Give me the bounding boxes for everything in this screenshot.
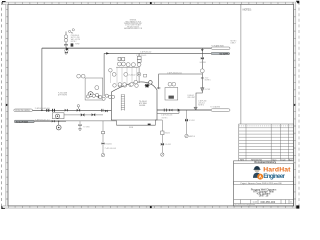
small relief valves on vent stack xyxy=(69,29,75,34)
pipe B riser corner arrow xyxy=(106,52,109,54)
flange pair at tank suction nozzle xyxy=(101,109,103,112)
small tag box above gauge xyxy=(144,74,147,77)
instrument row 2 bubbles xyxy=(112,73,135,77)
level gauge bubble right of cross xyxy=(149,81,153,85)
junction dot suction/header drop xyxy=(41,110,43,112)
svg-text:000-PID-003: 000-PID-003 xyxy=(261,200,276,204)
funnel drain x80 xyxy=(78,121,89,131)
instrument bubble x110 xyxy=(109,69,113,84)
logo: orange badge circle xyxy=(257,174,263,180)
pipe B drop wire x104 xyxy=(103,53,105,96)
svg-text:PSV-430-01: PSV-430-01 xyxy=(71,35,80,37)
general note block top center xyxy=(124,19,143,30)
label above top connector xyxy=(211,45,224,48)
pipe riser x202 from header xyxy=(196,48,202,110)
off-page connector outlet xyxy=(211,109,230,112)
dike wall profile xyxy=(34,120,162,125)
plot info text xyxy=(235,203,256,206)
svg-text:NOTE 5: NOTE 5 xyxy=(205,79,211,81)
svg-text:HV-4301: HV-4301 xyxy=(200,62,206,64)
logo: HardHat text xyxy=(263,166,291,173)
svg-text:NOTE 2: NOTE 2 xyxy=(71,41,77,43)
off-page connector return (hatched) xyxy=(15,120,35,123)
svg-text:NOTE 3: NOTE 3 xyxy=(231,41,237,43)
sump block in dike xyxy=(148,124,151,126)
label on fill line xyxy=(167,71,182,74)
logo: hardhat person icon xyxy=(253,166,261,178)
title block outline xyxy=(234,161,294,206)
spec break on riser xyxy=(201,77,211,81)
label above outlet connector xyxy=(210,106,221,109)
left border band xyxy=(6,4,8,206)
instrument bubbles above pump house xyxy=(77,74,85,78)
transfer pump below xyxy=(56,121,61,130)
title text: UNIT 16 xyxy=(259,194,269,198)
pump house note text xyxy=(58,91,67,96)
instrument bubble on riser xyxy=(200,69,204,73)
centering mark left xyxy=(6,104,8,106)
svg-text:TO FLARE HDR: TO FLARE HDR xyxy=(211,45,224,48)
title text: 430 System xyxy=(257,192,271,196)
flange at tank inlet xyxy=(157,88,160,89)
off-page connector (filled capsule) second xyxy=(211,52,230,55)
tank name text xyxy=(139,101,148,107)
svg-text:DV-4302: DV-4302 xyxy=(165,144,171,146)
suction line from connector y110 xyxy=(33,109,112,111)
dark gauge hatch cross on dome xyxy=(145,84,150,88)
gate valve on suction line xyxy=(65,109,68,112)
sample drop x186.5 xyxy=(185,110,195,138)
tee junction mark on outlet xyxy=(178,109,181,112)
svg-text:LT-430-02: LT-430-02 xyxy=(128,74,135,76)
svg-text:DV-4301: DV-4301 xyxy=(106,143,112,145)
corner triangle bottom-left xyxy=(1,206,5,209)
trim dashed line left edge xyxy=(1,2,3,208)
tank outlet line y110 right xyxy=(157,109,211,111)
junction dot on return line xyxy=(58,121,59,122)
svg-text:Engineer: Engineer xyxy=(263,173,285,180)
vent stack instrument assembly x66 xyxy=(64,32,68,55)
instrument drop stems to dome xyxy=(117,67,137,84)
bottom border band xyxy=(3,206,297,208)
label on pipe B xyxy=(140,51,151,54)
svg-text:SET 2.5 PSI: SET 2.5 PSI xyxy=(71,37,80,39)
svg-text:-005-1C1: -005-1C1 xyxy=(198,103,205,105)
blower package box xyxy=(165,82,178,100)
svg-text:TO OWS: TO OWS xyxy=(83,127,89,129)
tank shell xyxy=(111,82,157,120)
vent stack note text block xyxy=(71,35,81,45)
drawing number row xyxy=(234,200,294,204)
svg-text:Project : America Tower P&ID &: Project : America Tower P&ID & PFD area … xyxy=(241,182,283,185)
svg-text:2"x1": 2"x1" xyxy=(205,77,209,79)
instrument bubble left of blower xyxy=(150,82,152,84)
valve on riser x202 xyxy=(201,57,204,60)
return line from connector y121 xyxy=(34,120,66,122)
label above suction line xyxy=(35,107,50,110)
strainer at outlet junction xyxy=(194,107,197,110)
svg-text:NOTE 4: NOTE 4 xyxy=(198,104,204,106)
corner triangle top-left xyxy=(2,1,6,4)
svg-text:LINE 2": LINE 2" xyxy=(231,42,237,44)
nitrogen drop instruments x139 xyxy=(137,53,141,83)
pipe secondary header y53.4 xyxy=(104,52,211,54)
instrument row 3 bubbles xyxy=(118,80,138,86)
drain nozzle line y113.3 xyxy=(157,110,179,113)
off-page connector (outline capsule) top xyxy=(211,47,230,49)
tank ladder xyxy=(121,94,124,110)
pipe fill line y74 to tank xyxy=(159,74,203,89)
svg-text:N2 SUPPLY: N2 SUPPLY xyxy=(220,54,231,56)
tank drain x103 xyxy=(101,121,116,157)
gate valve on crossover xyxy=(92,113,96,116)
blower note text xyxy=(187,95,195,99)
svg-text:NOTE 6: NOTE 6 xyxy=(162,117,168,119)
svg-text:VRU UNIT: VRU UNIT xyxy=(187,97,195,99)
right border band xyxy=(294,2,296,208)
gate valve on return line xyxy=(52,120,55,123)
pipe main header y48 xyxy=(42,47,211,49)
logo: Engineer text xyxy=(263,173,285,180)
check valve on crossover xyxy=(81,113,85,116)
flange set on suction line xyxy=(47,109,55,112)
label right of riser valve xyxy=(200,62,206,64)
pump enclosure lower xyxy=(52,113,64,119)
dike label xyxy=(129,127,134,129)
svg-text:UNIT 16: UNIT 16 xyxy=(259,194,269,198)
notes heading xyxy=(243,8,252,11)
reducer at riser top xyxy=(201,49,204,51)
instrument bubble cluster row xyxy=(86,93,114,100)
labels under drain nozzle xyxy=(161,114,172,120)
tank top nozzle bubbles xyxy=(113,83,139,87)
revision table xyxy=(239,124,294,161)
title text: Process Well Diagram xyxy=(251,187,277,191)
label under pipe B xyxy=(136,55,147,57)
strainer on riser xyxy=(201,88,212,92)
svg-text:FILTER: FILTER xyxy=(205,89,211,91)
notes column separator xyxy=(240,4,242,124)
svg-text:500 BBL: 500 BBL xyxy=(139,105,146,107)
title text: ATF Storage Tank xyxy=(253,190,274,194)
svg-text:Document History: Document History xyxy=(255,161,277,164)
corner triangle bottom-right xyxy=(296,205,299,208)
dark actuator block near vent stack xyxy=(71,43,74,46)
crossover line y114.9 xyxy=(64,114,103,116)
label above return line xyxy=(35,118,50,121)
hand valve at tank inlet left xyxy=(105,110,108,113)
note text right of top connector xyxy=(231,41,237,45)
off-page connector suction xyxy=(14,109,33,112)
dike drain x162.3 xyxy=(161,120,172,156)
gate valve on outlet xyxy=(169,109,172,112)
project row xyxy=(234,181,294,185)
trim dashed line right edge xyxy=(298,2,300,208)
instrument header line above tank xyxy=(116,66,138,68)
svg-text:NOTES:: NOTES: xyxy=(243,8,252,11)
pump house enclosure xyxy=(85,78,103,100)
control valve with actuator on suction line xyxy=(77,105,80,112)
inner drawing frame xyxy=(8,4,294,206)
flange pair on outlet xyxy=(164,109,166,112)
corner triangle top-right xyxy=(296,1,299,4)
document history bar xyxy=(234,161,294,164)
centering mark right xyxy=(294,104,296,106)
centering mark bottom xyxy=(150,206,152,208)
header drop wire x42 xyxy=(41,48,43,110)
svg-text:X-430-02: X-430-02 xyxy=(187,95,194,97)
svg-text:SC-4301: SC-4301 xyxy=(189,120,195,122)
top border band xyxy=(3,2,297,4)
svg-text:PROJECT WORK: PROJECT WORK xyxy=(127,26,139,28)
instrument row 1 bubbles xyxy=(117,58,135,67)
svg-text:TO SLOP TANK: TO SLOP TANK xyxy=(16,120,29,123)
centering mark top xyxy=(150,2,152,4)
spec text block on riser lower xyxy=(198,100,206,107)
junction mark at vent stack base xyxy=(66,47,69,51)
